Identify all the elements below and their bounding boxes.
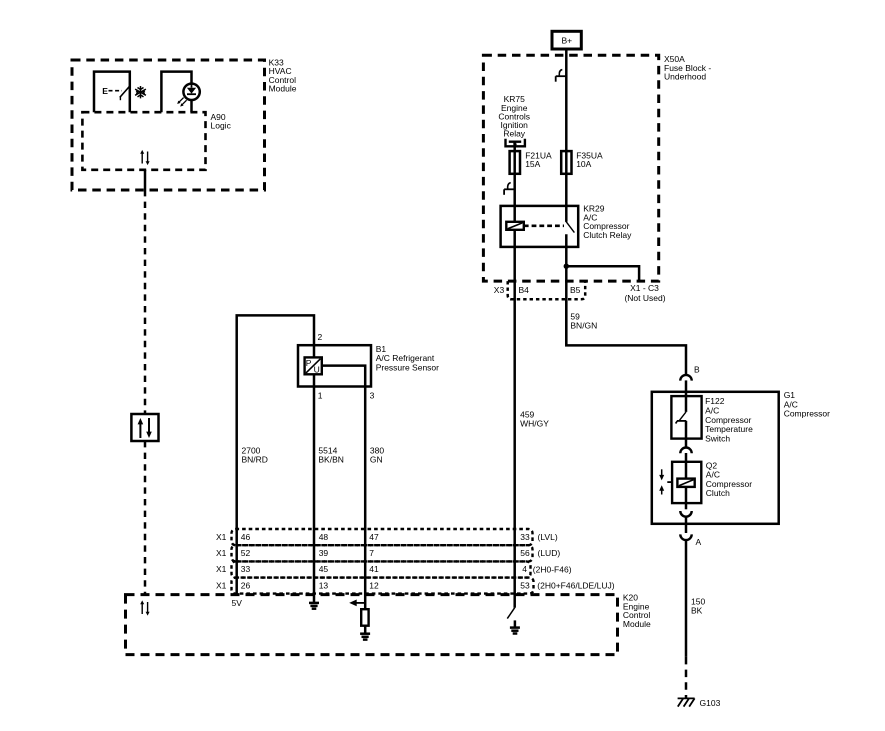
svg-text:BN/RD: BN/RD: [242, 455, 268, 465]
ECM connector row X1 (2H0-F46): [232, 561, 531, 577]
svg-text:Clutch Relay: Clutch Relay: [583, 230, 632, 240]
switch blade: [120, 86, 130, 97]
svg-text:Relay: Relay: [503, 129, 525, 139]
signal arrow on 380 GN circuit: [349, 600, 365, 607]
connector strip X3 with pins B4 B5: [508, 281, 586, 299]
wire 380 GN (sensor pin 3 down): [322, 366, 365, 610]
battery terminal B+: [552, 31, 581, 49]
svg-text:4: 4: [522, 564, 527, 574]
ECM connector row X1 (2H0+F46/LDE/LUJ): [232, 578, 534, 594]
temperature switch F122 box: [671, 396, 701, 439]
label 380 GN: [370, 446, 384, 465]
label X50A Fuse Block - Underhood: [664, 54, 711, 81]
svg-text:53: 53: [520, 580, 530, 590]
svg-text:5V: 5V: [232, 598, 243, 608]
wire F122 to connector: [685, 421, 688, 448]
wire serial data dashed (symbol to K20): [144, 441, 147, 595]
svg-text:Pressure Sensor: Pressure Sensor: [376, 363, 439, 373]
svg-text:G103: G103: [700, 698, 721, 708]
label K33 HVAC Control Module: [269, 58, 297, 94]
svg-text:13: 13: [319, 580, 329, 590]
svg-text:1: 1: [318, 391, 323, 401]
switch S A/C request (solid box, open bottom): [94, 72, 130, 113]
serial data link symbol box: [131, 414, 158, 441]
connector between F122 and Q2: [680, 448, 691, 454]
svg-text:X1: X1: [216, 548, 227, 558]
svg-text:B5: B5: [570, 285, 581, 295]
svg-text:BK: BK: [691, 606, 703, 616]
wire out of G1: [685, 517, 688, 533]
wire 2700 BN/RD (pin 46 to sensor pin 2): [237, 315, 314, 594]
wire 150 BK: [685, 540, 688, 657]
svg-text:Switch: Switch: [705, 434, 730, 444]
wire A90 to K33 edge: [144, 170, 147, 190]
relay KR75 feed symbol: [506, 139, 525, 147]
ground for resistor: [360, 634, 370, 640]
wire Q2 to connector: [685, 487, 688, 509]
svg-text:33: 33: [241, 564, 251, 574]
label 59 BN/GN: [570, 312, 597, 331]
connector terminal B: [680, 375, 691, 381]
svg-text:56: 56: [520, 548, 530, 558]
wire KR29 contact to B5 and down: [565, 234, 568, 345]
sensor P/U transducer symbol: [305, 357, 322, 374]
module K33 HVAC Control Module (dashed box): [72, 60, 265, 190]
svg-text:E: E: [102, 86, 108, 96]
svg-text:Module: Module: [623, 619, 651, 629]
svg-text:B4: B4: [519, 285, 530, 295]
svg-text:BN/GN: BN/GN: [570, 321, 597, 331]
label X1 - C3 (Not Used): [624, 283, 665, 303]
connector symbol on B+ feed: [556, 70, 567, 82]
resistor (pull-up): [361, 609, 368, 626]
svg-text:P: P: [306, 358, 312, 368]
svg-text:A: A: [696, 537, 702, 547]
svg-text:X3: X3: [494, 285, 505, 295]
LED triangle and cathode bar: [187, 88, 196, 94]
ECM connector row X1 (LVL): [232, 529, 533, 545]
svg-text:33: 33: [520, 532, 530, 542]
label KR75 Engine Controls Ignition Relay: [498, 94, 530, 138]
wire to X1-C3 not used: [566, 266, 639, 281]
snowflake icon: [135, 86, 146, 98]
serial data arrows inside K20: [140, 600, 149, 615]
switch dashed actuator line: [109, 90, 123, 92]
svg-text:X1: X1: [216, 580, 227, 590]
clutch arrows: [659, 469, 664, 494]
label G1 A/C Compressor: [784, 390, 830, 418]
temperature switch blade: [676, 412, 687, 424]
wire into G1: [685, 380, 688, 412]
ground for 5514 circuit: [309, 603, 319, 609]
label F21UA 15A: [525, 150, 552, 169]
module K20 Engine Control Module (dashed box): [126, 595, 618, 655]
svg-text:12: 12: [369, 580, 379, 590]
ECM connector row X1 (LUD): [232, 545, 533, 561]
label F35UA 10A: [576, 150, 603, 169]
label 150 BK: [691, 597, 705, 616]
indicator LED box (solid, open bottom): [161, 72, 191, 113]
svg-text:41: 41: [369, 564, 379, 574]
svg-text:Clutch: Clutch: [706, 488, 730, 498]
compressor assembly G1 box: [652, 392, 779, 524]
svg-text:39: 39: [319, 548, 329, 558]
svg-text:46: 46: [241, 532, 251, 542]
logic module A90 (dashed box): [82, 112, 205, 170]
svg-text:7: 7: [369, 548, 374, 558]
svg-text:Logic: Logic: [211, 121, 232, 131]
svg-text:(LUD): (LUD): [538, 548, 561, 558]
fuse F21UA: [510, 151, 520, 174]
connector terminal A: [680, 534, 691, 540]
svg-text:(2H0-F46): (2H0-F46): [533, 564, 572, 574]
dashed control line coil to contacts: [524, 225, 564, 228]
LED lower wire to A90 edge: [190, 100, 193, 113]
switch (459 driver) blade: [507, 608, 514, 619]
svg-text:45: 45: [319, 564, 329, 574]
fuse F35UA: [561, 151, 571, 174]
svg-text:52: 52: [241, 548, 251, 558]
junction node on B5 feed: [564, 264, 569, 269]
svg-text:Compressor: Compressor: [784, 409, 830, 419]
coil Q2: [677, 479, 694, 487]
svg-text:3: 3: [370, 391, 375, 401]
ground for 459 circuit: [510, 628, 520, 634]
svg-text:(LVL): (LVL): [538, 532, 558, 542]
svg-text:(Not Used): (Not Used): [624, 293, 665, 303]
wire 59 BN/GN (B5 to compressor): [566, 299, 686, 374]
wire B+ feed: [565, 49, 568, 222]
label Q2 A/C Compressor Clutch: [706, 460, 752, 498]
label K20 Engine Control Module: [623, 593, 651, 629]
label KR29 A/C Compressor Clutch Relay: [583, 203, 632, 240]
svg-text:X1: X1: [216, 564, 227, 574]
wire 459 WH/GY label: [520, 410, 549, 429]
svg-text:(2H0+F46/LDE/LUJ): (2H0+F46/LDE/LUJ): [537, 581, 614, 591]
svg-text:48: 48: [319, 532, 329, 542]
module X50A Fuse Block - Underhood (dashed box): [483, 55, 658, 281]
serial data arrows inside A90: [140, 150, 149, 165]
svg-text:X1 - C3: X1 - C3: [630, 283, 659, 293]
label B1 A/C Refrigerant Pressure Sensor: [376, 344, 439, 373]
label F122 A/C Compressor Temperature Switch: [705, 396, 753, 444]
svg-text:B: B: [694, 365, 700, 375]
sensor B1 A/C Refrigerant Pressure Sensor box: [298, 345, 371, 386]
svg-text:WH/GY: WH/GY: [520, 419, 549, 429]
wire resistor to ground: [364, 626, 367, 634]
svg-text:GN: GN: [370, 455, 383, 465]
LED circle: [183, 84, 199, 100]
svg-text:Underhood: Underhood: [664, 71, 706, 81]
svg-text:B+: B+: [561, 36, 572, 46]
label 5514 BK/BN: [318, 446, 344, 465]
ground G103 (chassis): [678, 698, 695, 706]
relay KR29 box: [501, 206, 579, 247]
wire ground lead dashed: [685, 657, 688, 698]
connector symbol below F21UA: [504, 183, 515, 195]
relay coil KR29: [506, 222, 524, 230]
wire 5514 BK/BN (sensor pin 1 down): [313, 357, 316, 603]
ground stub for 459 circuit: [514, 620, 517, 627]
svg-text:Module: Module: [269, 83, 297, 93]
svg-text:X1: X1: [216, 532, 227, 542]
wire F21UA column: [513, 142, 516, 608]
connector below Q2: [680, 511, 691, 517]
relay KR29 contact blade: [566, 221, 575, 232]
clutch mechanical stub: [667, 481, 672, 483]
labels X1 row names: [216, 532, 227, 590]
serial data link arrows: [138, 418, 152, 438]
svg-text:2: 2: [318, 332, 323, 342]
label 2700 BN/RD: [242, 446, 268, 465]
wire connector to Q2: [685, 453, 688, 479]
svg-text:26: 26: [241, 580, 251, 590]
svg-text:BK/BN: BK/BN: [318, 455, 344, 465]
wire serial data dashed (K33 to symbol): [144, 190, 147, 414]
LED light arrows: [179, 98, 187, 106]
svg-text:U: U: [314, 365, 320, 375]
label A90 Logic: [211, 112, 232, 131]
svg-text:15A: 15A: [525, 159, 540, 169]
clutch coil Q2 box: [672, 462, 701, 503]
svg-text:47: 47: [369, 532, 379, 542]
svg-text:10A: 10A: [576, 159, 591, 169]
